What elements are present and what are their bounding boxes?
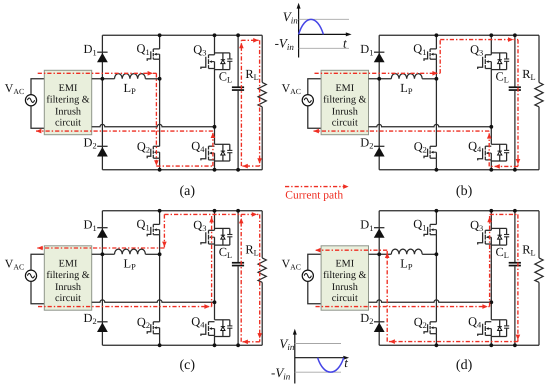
svg-text:LP: LP — [124, 257, 137, 272]
wire top rail (d) — [379, 210, 539, 212]
current path: middle rail to slow leg (c) — [38, 306, 212, 308]
diode D1 (d) — [374, 227, 384, 229]
wire load leg upper (a) — [261, 35, 263, 82]
current path: bottom rail to D2 (d) — [387, 341, 518, 343]
wire VAC bottom lead (c) — [31, 281, 44, 304]
wire diode leg (a) — [101, 35, 103, 170]
wire output capacitor leg (a) — [237, 35, 239, 87]
body diode and capacitor of Q4 (a) — [215, 143, 230, 145]
junction nodes (a) — [101, 77, 105, 81]
svg-text:VAC: VAC — [282, 256, 301, 271]
capacitor CL (d) — [509, 262, 521, 264]
EMI filtering and inrush circuit block (a) — [44, 70, 91, 134]
current path: down through Q1 (c) — [163, 214, 165, 248]
svg-text:Inrush: Inrush — [55, 282, 81, 293]
current path: up through Q4 (b) — [488, 131, 490, 166]
svg-text:t: t — [343, 36, 347, 51]
negative half sine wave (bottom) — [318, 358, 344, 372]
transistor Q4 (d) — [485, 321, 491, 323]
wire VAC top lead (a) — [31, 79, 44, 95]
wire middle return rail with hops (b) — [369, 124, 492, 126]
svg-text:Q3: Q3 — [193, 43, 206, 58]
transistor Q1 (b) — [430, 48, 436, 50]
svg-text:Q3: Q3 — [470, 43, 483, 58]
current path: inductor return to AC (c) — [37, 247, 164, 249]
wire fast leg lower (a) — [159, 158, 161, 170]
current path: CL discharge up (c) — [240, 214, 242, 341]
gridline -Vin (top) — [299, 47, 349, 49]
wire output capacitor leg (c) — [237, 211, 239, 262]
diode D2 (d) — [374, 321, 384, 323]
AC source VAC (d) — [302, 270, 313, 281]
svg-text:Q4: Q4 — [468, 315, 482, 330]
inductor LP (c) — [115, 249, 146, 254]
wire fast leg upper (c) — [159, 211, 161, 225]
legend current path line — [285, 186, 344, 188]
junction nodes (b) — [377, 77, 381, 81]
svg-text:(b): (b) — [456, 184, 473, 199]
wire slow leg lower (d) — [490, 335, 492, 345]
svg-text:Q2: Q2 — [137, 315, 150, 330]
body diode and capacitor of Q3 (b) — [491, 52, 506, 54]
resistor RL (b) — [535, 82, 543, 106]
current path: up through Q3 (d) — [489, 214, 491, 306]
svg-text:filtering &: filtering & — [46, 95, 89, 106]
svg-text:Q4: Q4 — [191, 315, 205, 330]
wire load leg upper (d) — [538, 211, 540, 258]
current path: RL to CL bottom (c) — [241, 341, 260, 343]
svg-text:circuit: circuit — [55, 118, 81, 129]
svg-text:(a): (a) — [180, 184, 196, 199]
wire top rail (a) — [102, 34, 262, 36]
diode D2 (b) — [374, 145, 384, 147]
svg-text:D1: D1 — [360, 218, 373, 233]
current path: up through D2 (d) — [386, 250, 388, 341]
current path: down through CL (d) — [517, 214, 519, 341]
svg-text:Inrush: Inrush — [55, 106, 81, 117]
EMI filtering and inrush circuit block (c) — [44, 246, 91, 310]
current path: down through RL (a) — [259, 40, 261, 166]
svg-text:RL: RL — [522, 242, 535, 257]
body diode and capacitor of Q3 (d) — [491, 227, 506, 229]
current path: CL to RL top (a) — [241, 39, 259, 41]
svg-text:circuit: circuit — [332, 293, 358, 304]
svg-text:filtering &: filtering & — [323, 95, 366, 106]
wire middle return rail with hops (c) — [92, 300, 215, 302]
gridline Vin (bottom) — [295, 343, 341, 345]
svg-text:Inrush: Inrush — [332, 106, 358, 117]
svg-text:LP: LP — [400, 81, 413, 96]
svg-text:Q1: Q1 — [137, 42, 150, 57]
svg-text:Vin: Vin — [279, 336, 294, 352]
wire load leg upper (b) — [538, 35, 540, 82]
inductor LP (b) — [391, 74, 422, 79]
svg-text:-Vin: -Vin — [275, 36, 295, 52]
wire load leg lower (b) — [538, 107, 540, 170]
wire load leg upper (c) — [261, 211, 263, 258]
wire top rail (b) — [379, 34, 539, 36]
capacitor CL (a) — [232, 86, 244, 88]
current path: CL discharge up (a) — [240, 40, 242, 166]
svg-text:RL: RL — [245, 242, 258, 257]
current path: down through CL (b) — [517, 40, 519, 167]
svg-text:Q3: Q3 — [470, 218, 483, 233]
gridline -Vin (bottom) — [295, 371, 341, 373]
positive half sine wave (top) — [299, 19, 324, 34]
transistor Q2 (b) — [430, 145, 436, 147]
svg-text:D2: D2 — [84, 311, 97, 326]
transistor Q3 (c) — [209, 229, 215, 231]
wire bottom rail (d) — [379, 344, 539, 346]
svg-text:D1: D1 — [84, 42, 97, 57]
AC source VAC (b) — [302, 95, 313, 106]
current path: top rail (c) — [164, 213, 259, 215]
resistor RL (a) — [258, 82, 266, 106]
svg-text:Q1: Q1 — [413, 42, 426, 57]
svg-text:D2: D2 — [360, 135, 373, 150]
svg-text:Q4: Q4 — [191, 139, 205, 154]
transistor Q4 (a) — [209, 145, 215, 147]
transistor Q2 (d) — [430, 321, 436, 323]
svg-text:Current path: Current path — [285, 189, 343, 201]
transistor Q3 (a) — [209, 54, 215, 56]
wire slow leg middle (d) — [490, 244, 492, 320]
wire VAC bottom lead (a) — [31, 106, 44, 129]
wire VAC bottom lead (b) — [308, 106, 321, 129]
svg-text:VAC: VAC — [5, 81, 24, 96]
body diode and capacitor of Q3 (c) — [215, 227, 230, 229]
wire slow leg upper (d) — [490, 211, 492, 231]
svg-text:Q2: Q2 — [137, 139, 150, 154]
svg-text:t: t — [344, 355, 348, 370]
svg-text:Q1: Q1 — [137, 217, 150, 232]
wire output capacitor leg (b) — [514, 35, 516, 87]
svg-text:Vin: Vin — [283, 9, 298, 25]
body diode and capacitor of Q4 (d) — [491, 319, 506, 321]
svg-text:LP: LP — [400, 257, 413, 272]
svg-text:LP: LP — [124, 81, 137, 96]
wire inductor to fast leg (c) — [145, 253, 159, 255]
svg-text:EMI: EMI — [335, 83, 354, 94]
wire fast leg lower (c) — [159, 334, 161, 346]
svg-text:Q2: Q2 — [414, 315, 427, 330]
current path: RL to CL bottom (a) — [241, 165, 259, 167]
wire middle return rail with hops (d) — [369, 300, 492, 302]
wire bottom rail (b) — [379, 169, 539, 171]
svg-text:D1: D1 — [360, 42, 373, 57]
svg-text:VAC: VAC — [282, 81, 301, 96]
inductor LP (a) — [115, 74, 146, 79]
wire bottom rail (a) — [102, 169, 262, 171]
transistor Q4 (c) — [209, 321, 215, 323]
current path: AC line to inductor (b) — [315, 72, 441, 74]
diode D1 (b) — [374, 51, 384, 53]
wire diode leg (b) — [378, 35, 380, 170]
gridline Vin (top) — [299, 18, 349, 20]
wire load leg lower (c) — [261, 282, 263, 345]
current path: middle rail to slow leg (d) — [316, 306, 490, 308]
wire fast leg lower (d) — [435, 334, 437, 346]
svg-text:circuit: circuit — [332, 118, 358, 129]
current path: bottom rail to Q4 (a) — [156, 165, 213, 167]
svg-text:Inrush: Inrush — [332, 282, 358, 293]
transistor Q1 (d) — [430, 223, 436, 225]
transistor Q3 (b) — [485, 54, 491, 56]
capacitor CL (c) — [232, 262, 244, 264]
wire VAC top lead (d) — [308, 254, 321, 270]
waveform inset axes (top) — [298, 5, 300, 58]
junction nodes (d) — [377, 252, 381, 256]
resistor RL (d) — [535, 258, 543, 282]
wire AC line to inductor (c) — [92, 253, 115, 255]
wire inductor to fast leg (a) — [145, 78, 159, 80]
wire VAC top lead (c) — [31, 254, 44, 270]
svg-text:CL: CL — [496, 69, 509, 84]
svg-text:(d): (d) — [456, 358, 473, 373]
current path: up through Q4 (a) — [212, 131, 214, 166]
current path: up through Q1 (b) — [439, 40, 441, 74]
svg-text:filtering &: filtering & — [46, 270, 89, 281]
svg-text:D1: D1 — [84, 218, 97, 233]
wire load leg lower (a) — [261, 107, 263, 170]
wire fast leg middle (d) — [435, 235, 437, 322]
transistor Q2 (c) — [153, 321, 159, 323]
wire fast leg upper (a) — [159, 35, 161, 49]
current path: down through RL (c) — [259, 214, 261, 341]
wire slow leg middle (b) — [490, 69, 492, 145]
wire output capacitor leg (d) — [514, 211, 516, 262]
transistor Q1 (a) — [153, 48, 159, 50]
wire slow leg upper (b) — [490, 35, 492, 55]
wire top rail (c) — [102, 210, 262, 212]
svg-text:RL: RL — [245, 67, 258, 82]
svg-text:-Vin: -Vin — [271, 365, 291, 381]
wire diode leg (c) — [101, 211, 103, 345]
wire slow leg middle (a) — [214, 69, 216, 145]
transistor Q1 (c) — [153, 223, 159, 225]
wire fast leg middle (c) — [159, 235, 161, 322]
wire fast leg upper (b) — [435, 35, 437, 49]
wire slow leg middle (c) — [214, 244, 216, 320]
transistor Q4 (b) — [485, 145, 491, 147]
wire bottom rail (c) — [102, 344, 262, 346]
wire slow leg lower (b) — [490, 160, 492, 170]
svg-text:Q3: Q3 — [193, 218, 206, 233]
wire VAC top lead (b) — [308, 79, 321, 95]
wire diode leg (d) — [378, 211, 380, 345]
svg-text:EMI: EMI — [335, 259, 354, 270]
current path: middle rail return (b) — [314, 130, 490, 132]
svg-text:EMI: EMI — [59, 259, 78, 270]
wire slow leg lower (c) — [214, 335, 216, 345]
inductor LP (d) — [391, 249, 422, 254]
wire fast leg upper (d) — [435, 211, 437, 225]
svg-text:RL: RL — [522, 67, 535, 82]
wire inductor to fast leg (b) — [422, 78, 436, 80]
svg-text:CL: CL — [219, 245, 232, 260]
svg-text:Q4: Q4 — [468, 139, 482, 154]
transistor Q2 (a) — [153, 145, 159, 147]
wire AC line to inductor (d) — [369, 253, 392, 255]
wire AC line to inductor (b) — [369, 78, 392, 80]
EMI filtering and inrush circuit block (d) — [321, 246, 368, 310]
svg-text:EMI: EMI — [59, 83, 78, 94]
current path: down through Q2 (a) — [155, 73, 157, 166]
current path: AC top return (d) — [315, 249, 387, 251]
svg-text:VAC: VAC — [5, 256, 24, 271]
EMI filtering and inrush circuit block (b) — [321, 70, 368, 134]
diode D2 (c) — [97, 321, 107, 323]
diode D2 (a) — [97, 145, 107, 147]
current path: AC line to inductor (a) — [38, 72, 157, 74]
svg-text:circuit: circuit — [55, 293, 81, 304]
current path: top rail to CL (d) — [490, 213, 518, 215]
wire VAC bottom lead (d) — [308, 281, 321, 304]
waveform inset axes (bottom) — [294, 331, 296, 384]
wire slow leg lower (a) — [214, 160, 216, 170]
resistor RL (c) — [258, 258, 266, 282]
current path: bottom rail to Q4 (b) — [489, 165, 518, 167]
wire middle return rail with hops (a) — [92, 124, 215, 126]
svg-text:(c): (c) — [180, 358, 196, 373]
wire inductor to fast leg (d) — [422, 253, 436, 255]
AC source VAC (a) — [25, 95, 36, 106]
capacitor CL (b) — [509, 86, 521, 88]
svg-text:Q1: Q1 — [413, 217, 426, 232]
wire fast leg middle (a) — [159, 59, 161, 146]
transistor Q3 (d) — [485, 229, 491, 231]
svg-text:CL: CL — [219, 69, 232, 84]
body diode and capacitor of Q3 (a) — [215, 52, 230, 54]
body diode and capacitor of Q4 (b) — [491, 143, 506, 145]
current path: middle rail return (a) — [36, 130, 213, 132]
diode D1 (c) — [97, 227, 107, 229]
svg-text:filtering &: filtering & — [323, 270, 366, 281]
wire fast leg lower (b) — [435, 158, 437, 170]
svg-text:D2: D2 — [360, 311, 373, 326]
wire fast leg middle (b) — [435, 59, 437, 146]
svg-text:CL: CL — [496, 245, 509, 260]
wire AC line to inductor (a) — [92, 78, 115, 80]
diode D1 (a) — [97, 51, 107, 53]
current path: up through Q3 (c) — [211, 214, 213, 306]
svg-text:Q2: Q2 — [414, 139, 427, 154]
body diode and capacitor of Q4 (c) — [215, 319, 230, 321]
current path: top rail to CL (b) — [440, 39, 518, 41]
AC source VAC (c) — [25, 270, 36, 281]
wire slow leg upper (a) — [214, 35, 216, 55]
wire slow leg upper (c) — [214, 211, 216, 231]
junction nodes (c) — [101, 252, 105, 256]
svg-text:D2: D2 — [84, 135, 97, 150]
wire load leg lower (d) — [538, 282, 540, 345]
